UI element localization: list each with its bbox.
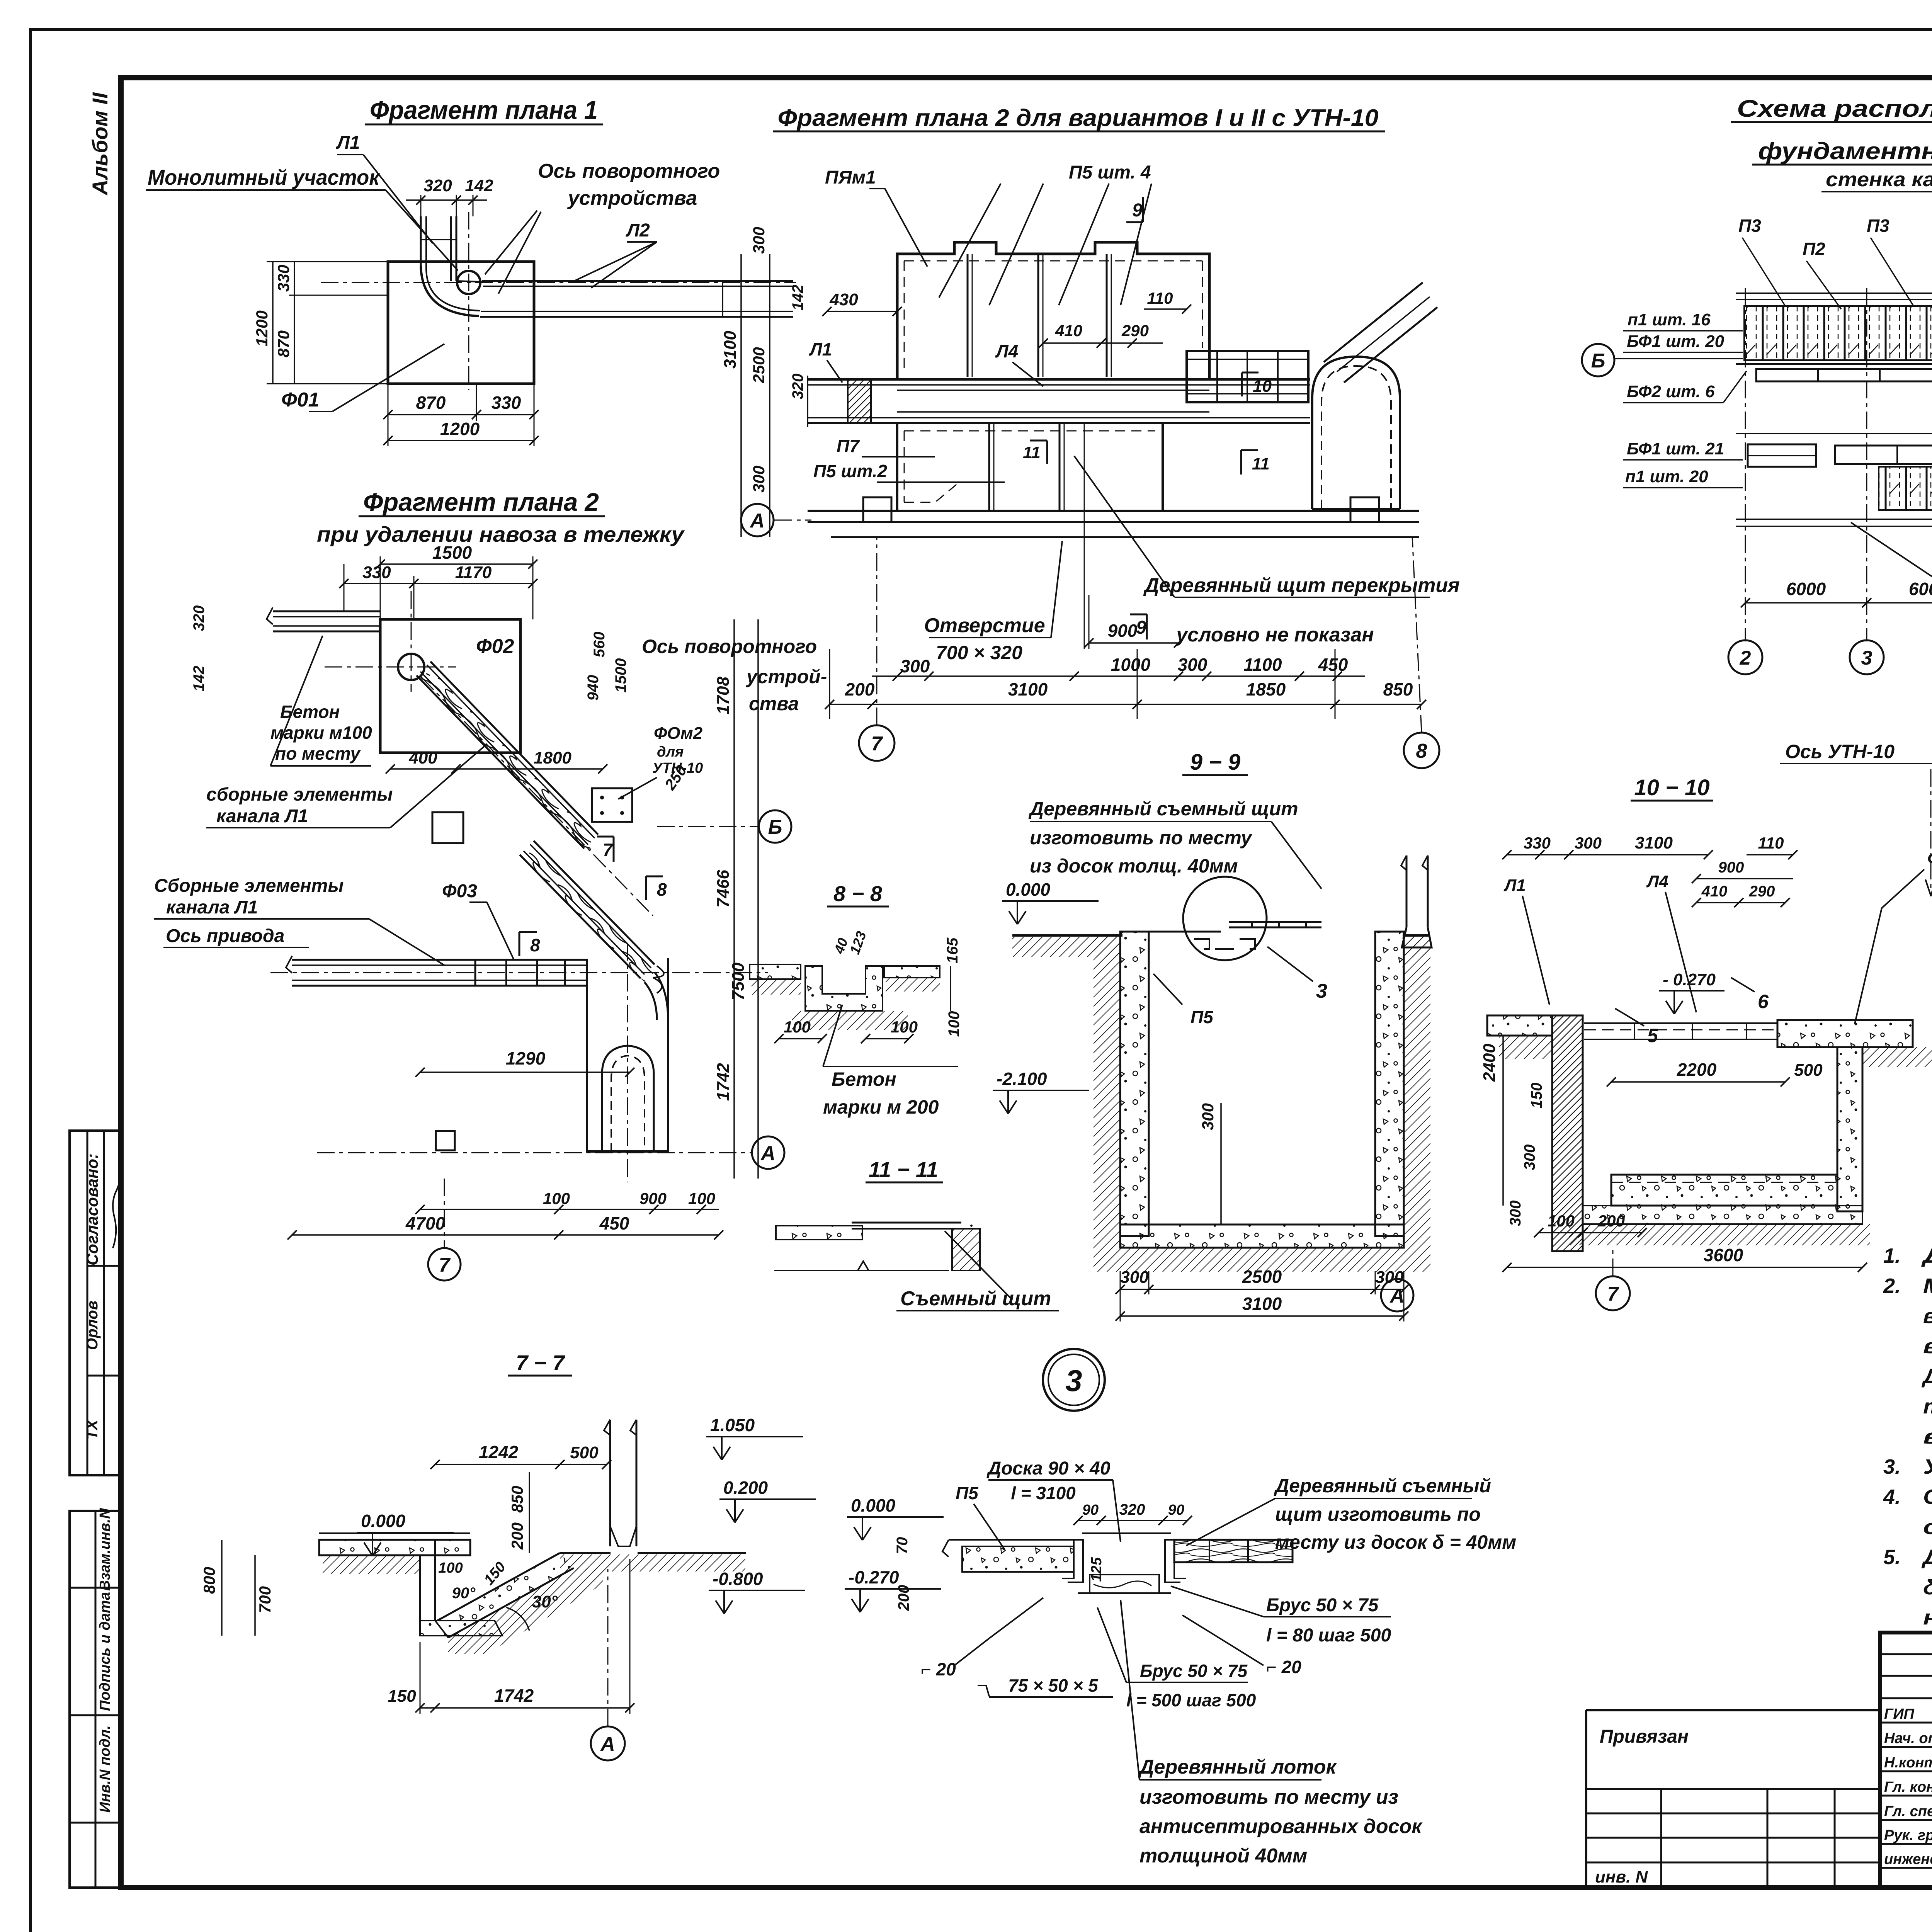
section 9-9: inner channel section at cover (1194, 939, 1255, 949)
section 8-8: left slab (750, 964, 801, 979)
svg-text:125: 125 (1088, 1557, 1105, 1582)
diagonal plan: diagonal channel segment 1 (417, 675, 584, 849)
svg-text:300: 300 (1507, 1201, 1524, 1226)
svg-text:450: 450 (1318, 655, 1348, 675)
svg-text:из досок толщ. 40мм: из досок толщ. 40мм (1030, 855, 1238, 877)
diagonal plan: axis circle A (752, 1136, 784, 1169)
svg-text:7: 7 (439, 1254, 451, 1276)
svg-text:150: 150 (1528, 1083, 1545, 1109)
section 10-10: axis 7 circle (1596, 1276, 1630, 1310)
section 9-9: top cover plates (1149, 931, 1221, 933)
scheme 2-7: upper chord lines (1736, 293, 1932, 294)
svg-text:1.: 1. (1883, 1244, 1901, 1267)
fragment plan 1: left dimensions (267, 261, 388, 262)
detail 3: dims 90/320/90 (1078, 1520, 1187, 1521)
section 9-9: floor slab (1120, 1225, 1404, 1248)
svg-text:3: 3 (1065, 1364, 1082, 1398)
svg-text:Н.контр.: Н.контр. (1884, 1755, 1932, 1771)
svg-text:200: 200 (895, 1585, 912, 1611)
svg-text:п1 шт. 20: п1 шт. 20 (1625, 467, 1708, 486)
section 10-10: bottom dims (1539, 1232, 1642, 1233)
svg-text:Деревянный съемный щит: Деревянный съемный щит (1028, 798, 1298, 820)
svg-text:1242: 1242 (479, 1442, 519, 1462)
scheme 2-7: axis B circle (1582, 344, 1614, 376)
svg-text:7: 7 (1607, 1283, 1619, 1305)
svg-text:320: 320 (789, 374, 806, 400)
svg-text:П5: П5 (1190, 1007, 1214, 1027)
svg-text:90°: 90° (452, 1585, 476, 1602)
svg-text:1800: 1800 (534, 748, 571, 767)
section 10-10: top dims (1507, 854, 1708, 855)
svg-text:толщиной 40мм: толщиной 40мм (1139, 1845, 1307, 1867)
svg-text:выполнять из бетона марки: выполнять из бетона марки М300 марки В6 … (1923, 1304, 1932, 1328)
diagonal plan: bend circle (398, 654, 424, 680)
svg-text:канала Л1: канала Л1 (166, 897, 258, 918)
svg-text:марки м 200: марки м 200 (823, 1096, 939, 1118)
section 11-11: cover plate (852, 1222, 961, 1224)
svg-text:10: 10 (1253, 377, 1272, 396)
svg-text:условно не показан: условно не показан (1175, 624, 1374, 646)
svg-text:940: 940 (585, 675, 602, 701)
svg-text:Фрагмент плана 2 для вариан: Фрагмент плана 2 для вариантов I и II с … (778, 105, 1379, 131)
plan UTN: foundation strip (808, 510, 1419, 512)
svg-text:Бетон: Бетон (832, 1068, 896, 1090)
svg-text:320: 320 (1119, 1501, 1145, 1518)
svg-text:1500: 1500 (612, 658, 629, 693)
left stamp column: approval box (70, 1131, 121, 1475)
diagonal plan: axis circle 7 bottom (428, 1248, 461, 1281)
scheme 2-7: lower plates band (1879, 467, 1932, 510)
svg-text:2400: 2400 (1480, 1044, 1499, 1082)
section 7-7: vertical channel element (609, 1420, 611, 1546)
diagonal plan: right dim chains (733, 619, 735, 1179)
svg-text:l = 80 шаг 500: l = 80 шаг 500 (1266, 1625, 1391, 1646)
svg-text:6000: 6000 (1786, 579, 1826, 599)
svg-text:Ф02: Ф02 (476, 635, 514, 658)
diagonal plan: axis circle B (759, 810, 791, 843)
fragment plan 1: foundation square F01 (388, 262, 534, 384)
svg-text:11 − 11: 11 − 11 (869, 1157, 938, 1182)
svg-text:7466: 7466 (714, 870, 733, 908)
diagonal plan: FOm2 block (592, 788, 632, 822)
diagonal plan: shaft centerline (627, 943, 628, 1182)
svg-text:А: А (1389, 1285, 1405, 1307)
svg-text:330: 330 (274, 265, 293, 292)
svg-text:100: 100 (438, 1560, 463, 1576)
section 10-10: earth hatch right (1862, 1047, 1932, 1067)
fragment plan 1: bottom dimensions (388, 384, 389, 446)
svg-text:300: 300 (1178, 655, 1207, 675)
title block: pinned table (left) (1586, 1709, 1880, 1711)
svg-text:7: 7 (871, 733, 883, 755)
section 9-9: bottom dims (1120, 1289, 1404, 1290)
section 8-8: channel U block (805, 966, 883, 1011)
fragment plan 1: pivot circle (457, 271, 480, 294)
svg-text:3: 3 (1861, 647, 1872, 669)
svg-text:Б: Б (1591, 350, 1605, 372)
svg-text:3: 3 (1316, 980, 1327, 1002)
svg-text:100: 100 (891, 1018, 918, 1036)
section 7-7: left dims (221, 1540, 223, 1636)
svg-text:0.000: 0.000 (851, 1495, 896, 1515)
fragment plan 1: centerlines (321, 282, 796, 283)
svg-text:сборные элементы: сборные элементы (206, 784, 393, 805)
svg-text:Л1: Л1 (1503, 876, 1526, 895)
diagonal plan: bottom dims (420, 1209, 719, 1210)
section 8-8: dims (779, 1038, 822, 1039)
fragment plan 1: channel bend arc (421, 266, 479, 316)
svg-text:500: 500 (570, 1443, 599, 1462)
diagonal plan: centerline top (325, 667, 456, 668)
svg-text:канала Л1: канала Л1 (216, 806, 308, 827)
svg-text:100: 100 (784, 1018, 811, 1036)
diagonal plan: diagonal channel segment 2 (520, 855, 641, 978)
svg-text:Ф01: Ф01 (281, 389, 319, 411)
svg-text:300: 300 (1199, 1103, 1217, 1130)
svg-text:300: 300 (900, 656, 930, 676)
fragment plan 1: vertical channel L1 (420, 216, 422, 267)
svg-text:по месту: по месту (275, 743, 361, 764)
plan UTN: UTN unit arch (1312, 357, 1400, 509)
svg-text:Деревянный лоток: Деревянный лоток (1138, 1756, 1337, 1778)
svg-text:330: 330 (1524, 834, 1551, 852)
fragment plan 1: top dimension 320/142 (420, 195, 422, 216)
svg-text:330: 330 (492, 393, 521, 413)
section 10-10: wood floor lines (1584, 1022, 1777, 1024)
svg-text:БФ2 шт. 6: БФ2 шт. 6 (1627, 382, 1715, 401)
section 8-8: right slab (884, 966, 940, 978)
section 11-11: base line (774, 1270, 949, 1271)
svg-text:изготовить по месту: изготовить по месту (1030, 827, 1253, 849)
svg-text:2.: 2. (1883, 1274, 1901, 1298)
plan UTN: lower room dashed inner (904, 430, 1155, 432)
svg-text:3100: 3100 (1242, 1294, 1282, 1314)
svg-text:Съемный щит: Съемный щит (900, 1287, 1051, 1310)
svg-text:165: 165 (944, 937, 961, 963)
section 10-10: floor bottom strip (1583, 1206, 1862, 1224)
section 10-10: left wall hatched (1552, 1015, 1583, 1251)
section 7-7: slope (437, 1553, 574, 1638)
svg-text:10 − 10: 10 − 10 (1634, 775, 1709, 800)
diagonal plan: bend arcs into shaft (645, 982, 657, 1020)
svg-text:фундаментных блоков между о: фундаментных блоков между осями 2-7 (1758, 138, 1932, 165)
plan UTN: dims row 2 (1074, 675, 1365, 677)
section 10-10: right wall (1837, 1047, 1862, 1211)
section 7-7: dims top (435, 1464, 607, 1465)
plan UTN: axis 7/8 circles (859, 725, 895, 761)
svg-text:5: 5 (1647, 1025, 1658, 1046)
plan UTN: upper room dashed inner (904, 260, 1202, 262)
diagonal plan: diagonal centerline (421, 677, 653, 916)
svg-text:8: 8 (530, 935, 540, 955)
svg-text:100: 100 (543, 1189, 570, 1207)
section 7-7: earth hatch under slope (448, 1568, 603, 1654)
svg-text:п1 шт. 16: п1 шт. 16 (1628, 310, 1711, 329)
svg-text:410: 410 (1701, 883, 1728, 900)
svg-text:430: 430 (829, 290, 858, 309)
svg-text:не ниже 2 сорта.: не ниже 2 сорта. (1923, 1606, 1932, 1629)
scheme 2-7: lower long beam (1835, 446, 1932, 464)
svg-text:110: 110 (1758, 834, 1784, 852)
svg-text:7: 7 (603, 840, 614, 860)
svg-text:1100: 1100 (1244, 655, 1282, 675)
svg-text:7 − 7: 7 − 7 (516, 1350, 566, 1375)
plan UTN: lower room outline (897, 423, 1163, 511)
svg-text:1000: 1000 (1111, 655, 1151, 675)
section 7-7: ground right (560, 1552, 611, 1554)
svg-text:9 − 9: 9 − 9 (1190, 750, 1241, 775)
svg-text:Подпись и дата: Подпись и дата (97, 1592, 113, 1711)
svg-text:Фрагмент плана 2: Фрагмент плана 2 (363, 488, 599, 516)
svg-text:БФ1 шт. 21: БФ1 шт. 21 (1627, 439, 1724, 458)
section 9-9: ground line (1012, 934, 1122, 937)
plan UTN: partitions upper (967, 254, 969, 377)
scheme 2-7: lower short bars (1748, 444, 1816, 467)
svg-text:1170: 1170 (455, 563, 492, 582)
svg-text:инв. N: инв. N (1595, 1867, 1648, 1886)
diagonal plan: mid dims 400/1800/250 (390, 768, 603, 770)
svg-text:6000: 6000 (1909, 579, 1932, 599)
svg-text:Согласовано:: Согласовано: (83, 1153, 101, 1265)
title block: bottom line (1586, 1886, 1932, 1889)
svg-text:Л2: Л2 (626, 220, 650, 241)
svg-text:290: 290 (1749, 883, 1775, 900)
svg-text:410: 410 (1055, 321, 1082, 340)
svg-text:Ось УТН-10: Ось УТН-10 (1785, 741, 1895, 762)
svg-text:1290: 1290 (506, 1048, 546, 1068)
svg-text:А: А (600, 1733, 615, 1755)
section 9-9: axis A circle (1381, 1279, 1413, 1311)
svg-text:870: 870 (274, 330, 293, 357)
svg-text:11: 11 (1023, 443, 1041, 462)
svg-text:700 × 320: 700 × 320 (936, 642, 1022, 663)
section 7-7: bottom dims (420, 1707, 630, 1709)
svg-text:500: 500 (1794, 1061, 1823, 1080)
diagonal plan: wood hatch in segment 2 (524, 849, 655, 982)
detail 3 circle (1043, 1349, 1105, 1411)
svg-text:Гл. констр.: Гл. констр. (1884, 1779, 1932, 1795)
svg-text:⌐ 20: ⌐ 20 (921, 1659, 956, 1679)
svg-text:200: 200 (1597, 1212, 1625, 1230)
svg-text:0.000: 0.000 (1006, 879, 1051, 900)
svg-text:δ = 40 мм. Для изготовления: δ = 40 мм. Для изготовления принять древ… (1923, 1576, 1932, 1599)
svg-text:3100: 3100 (721, 331, 740, 369)
plan UTN: right channel plate box (1187, 351, 1308, 402)
svg-text:Ось привода: Ось привода (166, 926, 284, 946)
svg-text:П7: П7 (837, 436, 860, 456)
section 9-9: detail circle (1183, 877, 1267, 960)
svg-text:142: 142 (190, 666, 207, 692)
svg-text:Л4: Л4 (995, 341, 1018, 361)
section 11-11: right block (952, 1229, 980, 1270)
svg-text:8 − 8: 8 − 8 (833, 881, 883, 906)
diagonal plan: wood hatch in segment 1 (420, 669, 598, 852)
svg-text:1500: 1500 (432, 543, 472, 563)
section 8-8: hatch below (792, 1011, 908, 1030)
svg-text:200: 200 (845, 679, 875, 699)
svg-text:П5 шт. 4: П5 шт. 4 (1069, 162, 1151, 183)
svg-text:8: 8 (657, 879, 667, 900)
scheme 2-7: upper band bottom lines (1736, 363, 1932, 365)
svg-text:90: 90 (1082, 1502, 1099, 1518)
svg-text:7500: 7500 (729, 963, 748, 1000)
svg-text:Монолитный участок: Монолитный участок (148, 165, 380, 189)
svg-text:П2: П2 (1803, 239, 1825, 259)
svg-text:110: 110 (1147, 289, 1173, 307)
svg-text:142: 142 (465, 176, 493, 195)
svg-text:изготовить по месту из: изготовить по месту из (1139, 1786, 1398, 1808)
scheme 2-7: bottom dim chain (1745, 602, 1932, 604)
svg-text:Брус 50 × 75: Брус 50 × 75 (1266, 1595, 1379, 1616)
svg-text:Отверстие: Отверстие (924, 614, 1045, 637)
svg-text:870: 870 (416, 393, 446, 413)
section 7-7: earth hatch under slab (323, 1555, 420, 1574)
svg-text:0.200: 0.200 (723, 1478, 768, 1498)
svg-text:1742: 1742 (494, 1685, 534, 1706)
svg-text:-0.270: -0.270 (849, 1567, 899, 1587)
svg-text:Схема расположения плит пол: Схема расположения плит полов стойл и (1737, 95, 1932, 122)
plan UTN: axis A circle (741, 504, 774, 536)
scheme 2-7: upper plates band (1744, 306, 1932, 360)
left stamp column: inventory box (70, 1511, 121, 1888)
svg-text:8: 8 (1416, 740, 1427, 762)
svg-text:Деревянный съемный: Деревянный съемный (1274, 1475, 1491, 1497)
svg-text:марки м100: марки м100 (270, 723, 372, 743)
svg-text:300: 300 (750, 227, 768, 254)
section 10-10: dim 2200/500 (1611, 1081, 1785, 1083)
svg-text:290: 290 (1121, 321, 1149, 340)
svg-text:2500: 2500 (750, 347, 768, 383)
svg-text:3600: 3600 (1704, 1245, 1743, 1265)
svg-text:3.: 3. (1883, 1455, 1901, 1478)
diagonal plan: top channel lines (273, 611, 380, 612)
svg-text:Гл. спец.: Гл. спец. (1884, 1803, 1932, 1820)
svg-text:850: 850 (508, 1486, 526, 1513)
svg-text:700: 700 (256, 1586, 274, 1613)
svg-text:0.000: 0.000 (361, 1511, 406, 1531)
svg-text:Монолитные участки каналов: Монолитные участки каналов навозоудалени… (1923, 1274, 1932, 1298)
svg-text:3100: 3100 (1008, 679, 1048, 699)
section 7-7: axis A circle (591, 1726, 625, 1760)
svg-text:Взам.инв.N: Взам.инв.N (97, 1508, 113, 1591)
svg-text:320: 320 (190, 605, 207, 631)
scheme 2-7: upper beam strip (1756, 369, 1932, 381)
svg-text:месту из досок δ = 40мм: месту из досок δ = 40мм (1275, 1531, 1516, 1553)
approval signature squiggle (113, 1180, 121, 1248)
section 9-9: vertical element right (1406, 855, 1408, 927)
svg-text:560: 560 (591, 632, 608, 658)
svg-text:Рук. гр.: Рук. гр. (1884, 1827, 1932, 1844)
svg-text:Ось поворотного: Ось поворотного (642, 636, 817, 657)
svg-text:1.050: 1.050 (710, 1415, 755, 1435)
diagonal plan: dimensions top (380, 563, 533, 565)
svg-text:3100: 3100 (1635, 833, 1673, 852)
diagonal plan: F02 block (380, 619, 520, 753)
diagonal plan: drop shaft with arch (587, 958, 668, 1151)
diagonal plan: small marker square bottom (436, 1131, 455, 1150)
svg-text:водоцементное отношение не: водоцементное отношение не более 0,55. (1923, 1335, 1932, 1358)
svg-text:300: 300 (1120, 1268, 1149, 1287)
svg-text:9: 9 (1136, 617, 1146, 638)
svg-text:1200: 1200 (440, 419, 480, 439)
svg-text:Доска 90 × 40: Доска 90 × 40 (986, 1458, 1110, 1479)
plan UTN: partitions lower (988, 423, 990, 511)
svg-text:2200: 2200 (1677, 1060, 1717, 1080)
svg-text:- 0.270: - 0.270 (1663, 970, 1716, 989)
diagonal plan: lower horizontal channel (292, 959, 587, 961)
svg-text:П3: П3 (1867, 216, 1889, 236)
svg-text:БФ1 шт. 20: БФ1 шт. 20 (1627, 332, 1725, 351)
svg-text:Л1: Л1 (336, 133, 360, 153)
svg-text:Нач. отд.: Нач. отд. (1884, 1730, 1932, 1747)
svg-text:400: 400 (408, 748, 437, 767)
scheme 2-7: lower band top line (1736, 433, 1932, 434)
svg-text:90: 90 (1168, 1502, 1184, 1518)
section 9-9: earth hatch around (1094, 935, 1120, 1248)
svg-text:1708: 1708 (714, 677, 733, 714)
svg-text:устройства: устройства (567, 187, 697, 209)
svg-text:5.: 5. (1883, 1546, 1901, 1569)
plan UTN: foundation block right (1350, 497, 1379, 522)
svg-text:Сборные элементы: Сборные элементы (154, 876, 344, 896)
svg-text:А: А (749, 510, 765, 532)
plan UTN: upper room outline (897, 242, 1209, 379)
svg-text:900: 900 (1108, 621, 1138, 641)
svg-text:Альбом II: Альбом II (88, 92, 112, 196)
detail 3: channel steel left (1062, 1540, 1083, 1582)
plan UTN: central channel (808, 378, 1310, 381)
detail 3: left slab (962, 1546, 1074, 1572)
plan UTN: dims row 3 (830, 704, 1422, 705)
svg-text:330: 330 (362, 563, 391, 582)
svg-text:щит изготовить по: щит изготовить по (1275, 1503, 1481, 1525)
svg-text:1200: 1200 (253, 310, 271, 346)
section 9-9: ground hatch strips (1012, 937, 1121, 957)
svg-text:4.: 4. (1883, 1485, 1901, 1509)
svg-text:Орлов: Орлов (84, 1301, 101, 1350)
section 11-11: left slab (776, 1226, 862, 1240)
svg-text:ства: ства (749, 693, 799, 714)
svg-text:Брус 50 × 75: Брус 50 × 75 (1140, 1661, 1248, 1681)
diagonal plan: small marker square mid (432, 812, 463, 843)
svg-text:Деревянные щиты и лоток из: Деревянные щиты и лоток изготовить по ме… (1921, 1546, 1932, 1569)
svg-text:Стыки элементов каналов нав: Стыки элементов каналов навозоудаления г… (1923, 1485, 1932, 1509)
svg-text:при удалении навоза в тележку: при удалении навоза в тележку (317, 522, 685, 546)
svg-text:для: для (657, 744, 684, 760)
svg-text:142: 142 (789, 285, 806, 311)
svg-text:300: 300 (1575, 834, 1602, 852)
section 7-7: pit walls (419, 1555, 421, 1621)
svg-text:11: 11 (1252, 454, 1270, 473)
svg-text:-0.800: -0.800 (713, 1569, 763, 1589)
title block outer (1880, 1633, 1932, 1888)
svg-text:900: 900 (639, 1189, 667, 1207)
scheme 2-7: lower chord lines (1736, 519, 1932, 520)
section 10-10: ground slabs (1487, 1015, 1552, 1036)
section 9-9: left wall (1120, 932, 1149, 1236)
svg-text:1742: 1742 (714, 1063, 733, 1101)
detail 3: top small plates (1082, 1532, 1171, 1534)
svg-text:70: 70 (894, 1537, 911, 1554)
plan UTN: foundation block left (863, 497, 891, 522)
svg-text:инженер: инженер (1884, 1851, 1932, 1867)
svg-text:Ось поворотного: Ось поворотного (538, 160, 720, 182)
section 9-9: right wall (1375, 932, 1404, 1236)
detail 3: right wood plank band (1174, 1540, 1293, 1562)
svg-text:4700: 4700 (405, 1213, 446, 1233)
svg-text:⌐ 20: ⌐ 20 (1266, 1657, 1301, 1677)
svg-text:Л4: Л4 (1646, 872, 1668, 891)
